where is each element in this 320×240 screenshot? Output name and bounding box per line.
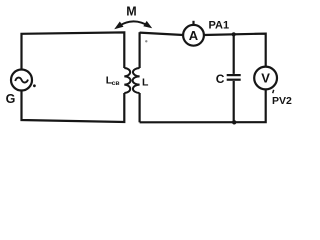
svg-text:M: M: [126, 5, 136, 19]
svg-text:C: C: [216, 72, 225, 86]
svg-text:A: A: [189, 28, 199, 43]
svg-text:PV2: PV2: [272, 95, 292, 107]
svg-text:L: L: [142, 77, 149, 89]
svg-text:G: G: [6, 92, 16, 106]
svg-text:V: V: [261, 70, 270, 85]
svg-text:св: св: [112, 80, 120, 87]
svg-text:PA1: PA1: [209, 20, 230, 32]
